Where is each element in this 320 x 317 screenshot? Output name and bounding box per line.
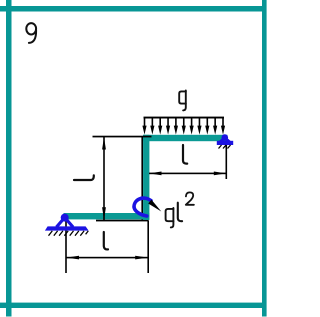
- moment arc ql2: [134, 198, 151, 216]
- bottom left extension line: [65, 219, 67, 273]
- moment label ql: [166, 208, 174, 228]
- load arrow 1: [142, 117, 146, 135]
- bottom dimension arrow left: [66, 256, 79, 260]
- member axis black line (left edge of column): [141, 136, 143, 221]
- right support ground hatching: [219, 145, 231, 149]
- load arrow 5: [174, 117, 178, 135]
- left support ground hatching: [49, 231, 89, 236]
- moment arrowhead: [148, 200, 161, 212]
- bottom dimension label l: [104, 232, 108, 249]
- vertical dimension line: [103, 137, 105, 221]
- load arrow 4: [166, 117, 170, 135]
- table border left vertical line: [6, 0, 12, 317]
- load arrow 10: [213, 117, 217, 135]
- distributed load top line: [144, 117, 225, 119]
- right pinned support (blue): [217, 134, 233, 148]
- load arrow 8: [197, 117, 201, 135]
- load arrow 9: [205, 117, 209, 135]
- bottom right extension line: [147, 221, 149, 274]
- problem number 9: [26, 23, 36, 43]
- left support legs: [57, 218, 74, 228]
- table border top horizontal line: [0, 6, 267, 12]
- load arrow 3: [158, 117, 162, 135]
- dimension label l (right span): [183, 145, 187, 164]
- load label q: [179, 90, 186, 110]
- dimension arrow left (right span): [149, 172, 162, 176]
- dimension line right span: [149, 173, 226, 175]
- load arrow 7: [190, 117, 194, 135]
- load arrow 2: [150, 117, 154, 135]
- left support base: [45, 226, 89, 230]
- frame bottom beam member: [64, 213, 150, 219]
- right support legs: [219, 138, 230, 143]
- table border bottom horizontal line: [0, 303, 267, 308]
- right support hinge circle: [222, 134, 229, 141]
- vertical dimension arrow down: [102, 207, 106, 220]
- frame top beam member: [143, 135, 227, 141]
- right support base: [217, 141, 233, 145]
- right support extension line: [226, 144, 228, 179]
- left pinned support (blue): [45, 214, 89, 236]
- dimension tick bottom (extension of bottom member axis): [96, 220, 149, 222]
- dimension arrow right (right span): [214, 172, 227, 176]
- distributed load arrows: [142, 117, 225, 135]
- load arrow 6: [182, 117, 186, 135]
- bottom dimension line: [66, 257, 148, 259]
- left support hinge circle: [61, 214, 69, 222]
- dimension tick top (extension of top member axis): [93, 136, 152, 138]
- moment label exponent 2: [186, 192, 194, 204]
- vertical dimension arrow up: [102, 137, 106, 150]
- vertical dimension label l (rotated): [74, 175, 94, 180]
- table border right vertical line: [262, 0, 267, 317]
- load arrow 11: [221, 117, 225, 135]
- frame column member (vertical): [143, 135, 149, 220]
- bottom dimension arrow right: [135, 256, 148, 260]
